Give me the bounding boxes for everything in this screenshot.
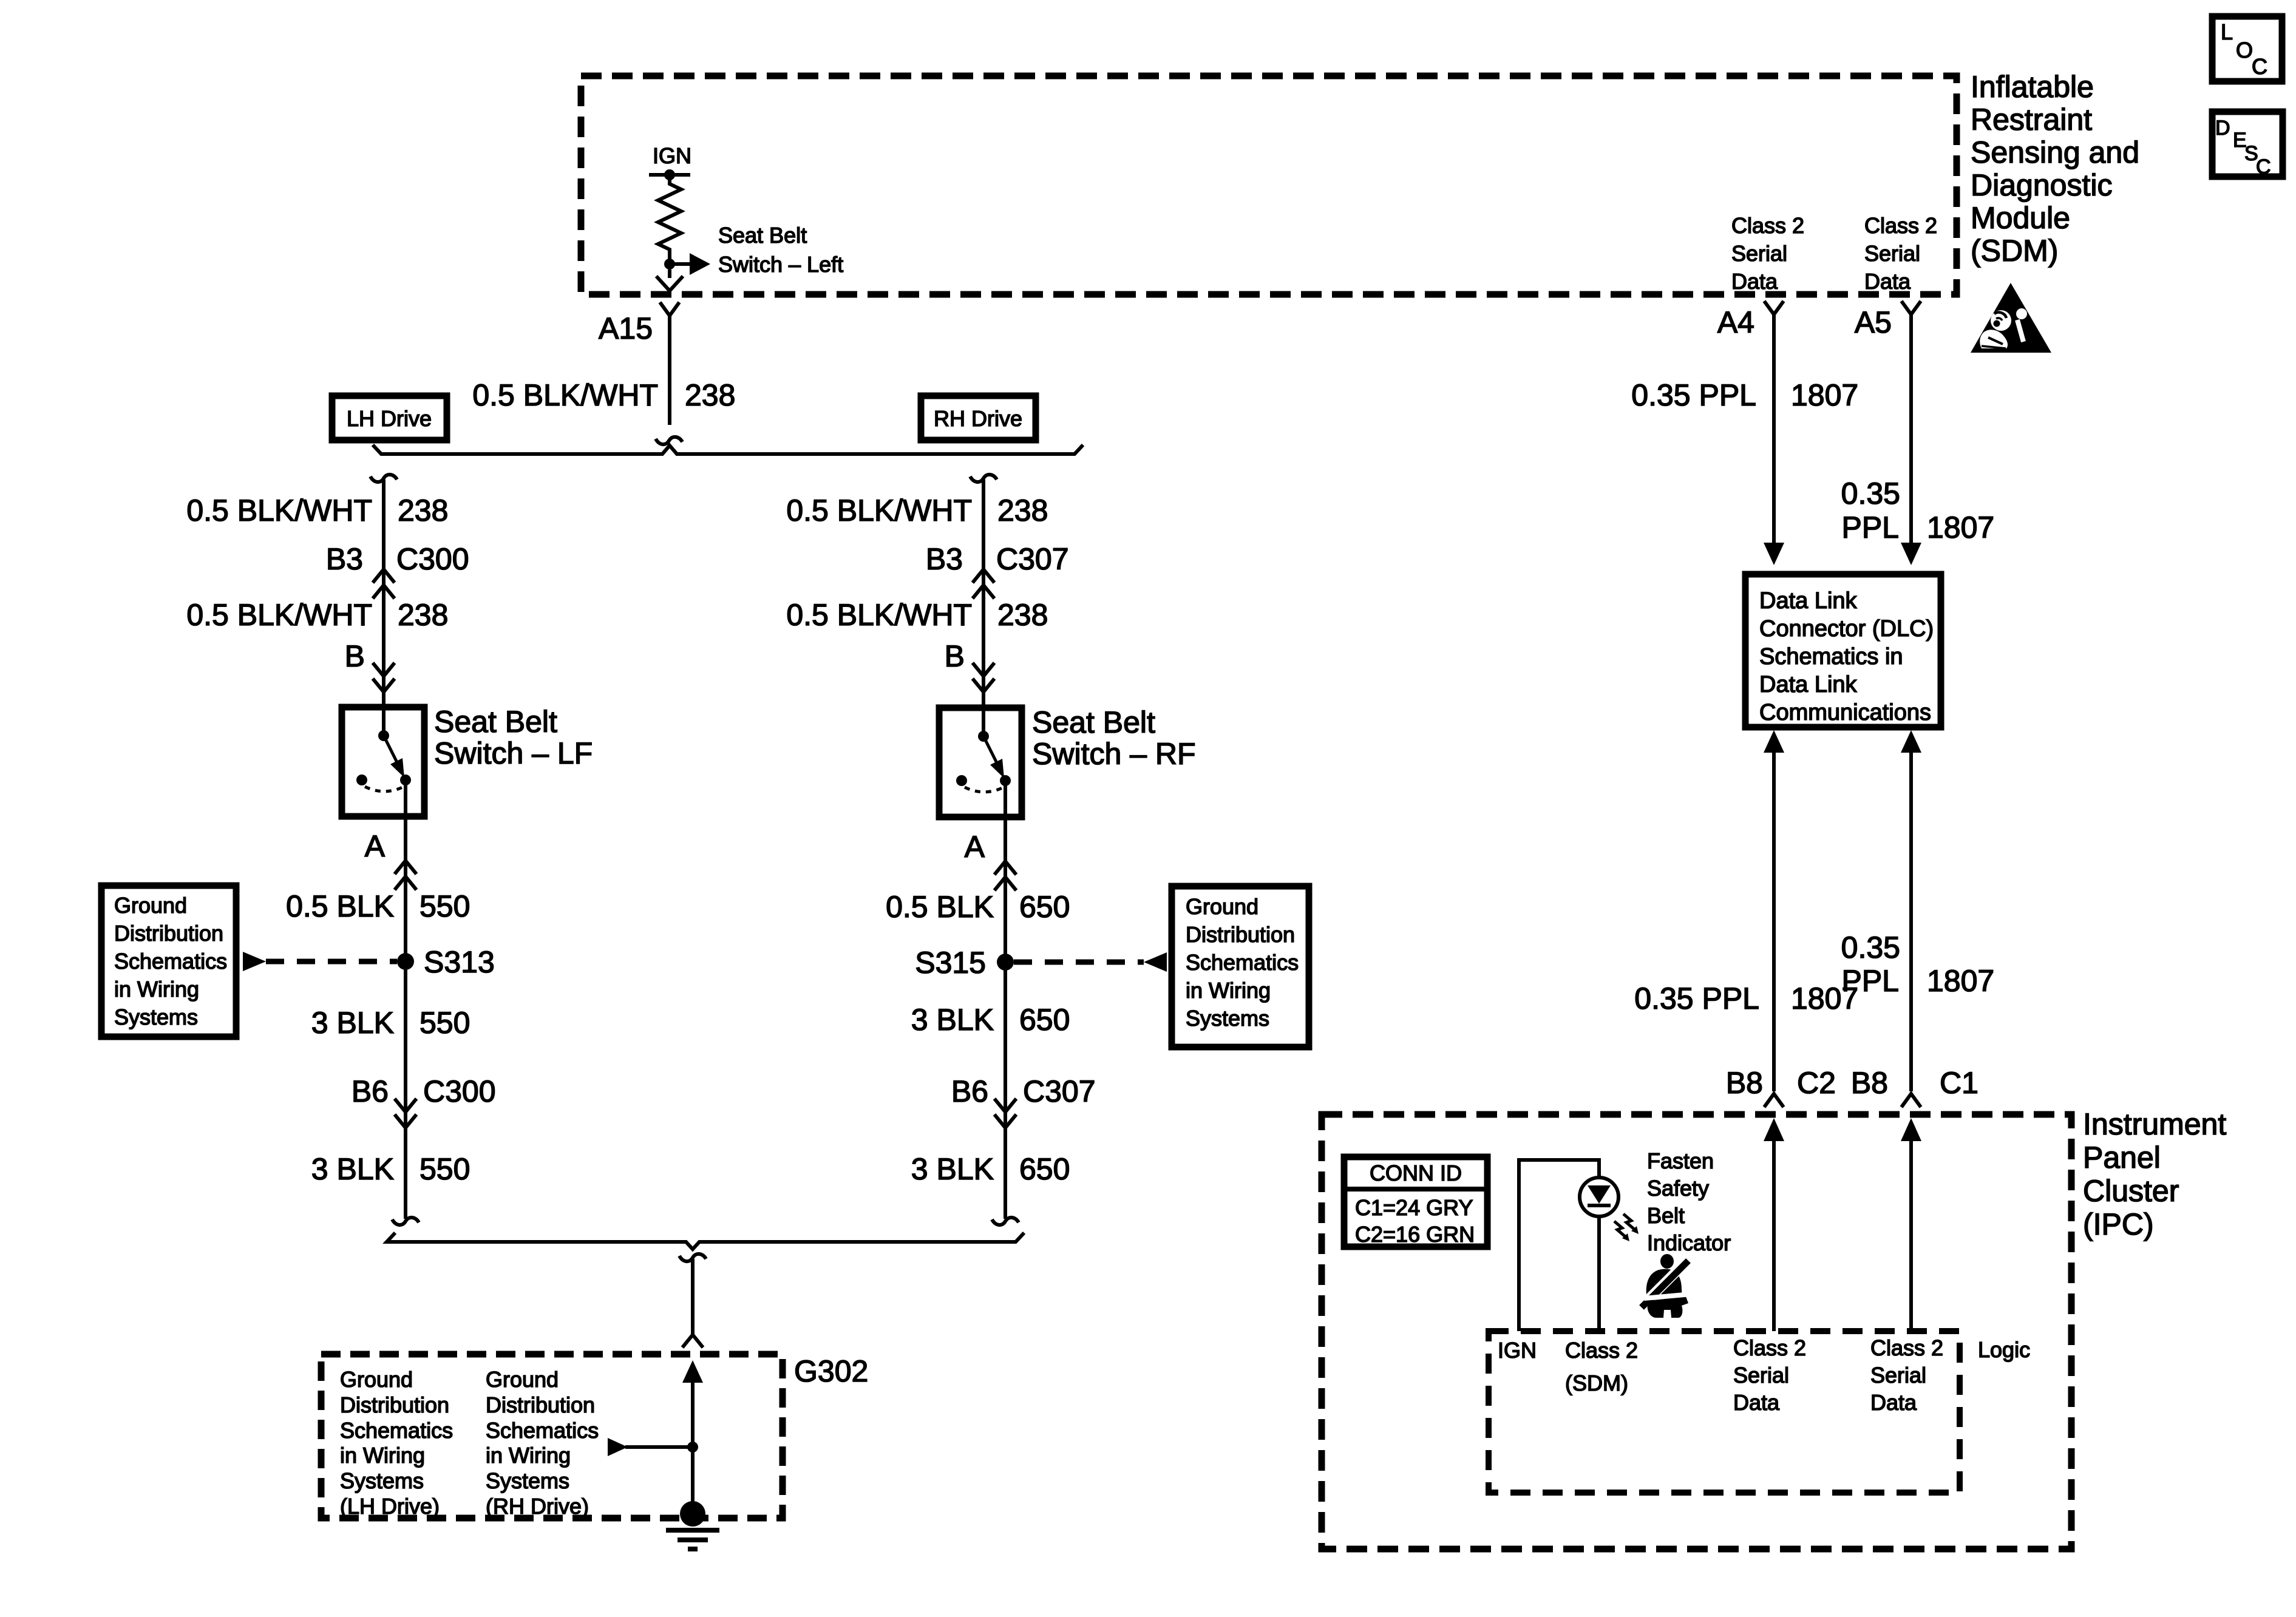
box Seat Belt Switch - RF xyxy=(939,708,1022,817)
label Inflatable Restraint Sensing and Diagnostic Module (SDM) xyxy=(1971,70,2139,268)
label 0.35 PPL 1807 (C1 wire) xyxy=(1841,931,1995,998)
label B6 C307 xyxy=(951,1074,1096,1108)
wire break curl (LH branch bottom) xyxy=(392,1218,419,1225)
wire arrow down to SDM pin A15 xyxy=(656,269,683,291)
switch LF internals xyxy=(356,707,411,816)
label 0.35 PPL 1807 (A4 wire) xyxy=(1631,378,1858,412)
svg-text:O: O xyxy=(2236,38,2253,63)
box logic dashed xyxy=(1489,1331,1960,1493)
svg-text:Class 2: Class 2 xyxy=(1565,1338,1638,1363)
svg-text:0.5 BLK/WHT: 0.5 BLK/WHT xyxy=(186,598,372,632)
label A15 xyxy=(599,311,653,345)
svg-text:(IPC): (IPC) xyxy=(2083,1207,2154,1241)
splice S315 dot xyxy=(997,954,1014,971)
wire A4 to DLC with down arrow xyxy=(1764,314,1784,565)
svg-text:(LH Drive): (LH Drive) xyxy=(340,1494,440,1519)
box RH Drive xyxy=(921,396,1036,440)
label G302 xyxy=(794,1354,868,1388)
box DESC xyxy=(2212,112,2283,178)
svg-text:3 BLK: 3 BLK xyxy=(911,1003,994,1037)
svg-text:Connector (DLC): Connector (DLC) xyxy=(1759,616,1934,642)
svg-text:Data: Data xyxy=(1733,1390,1780,1415)
svg-text:Class 2: Class 2 xyxy=(1731,213,1804,238)
label B8 C1 xyxy=(1851,1066,1978,1100)
wire LH branch upper xyxy=(382,480,385,707)
svg-text:C: C xyxy=(2252,54,2267,79)
connector chevrons below LF switch xyxy=(395,861,416,890)
label Class 2 (SDM) (logic pin) xyxy=(1565,1338,1638,1395)
label pin A (LF switch) xyxy=(365,829,385,863)
svg-text:3 BLK: 3 BLK xyxy=(911,1152,994,1186)
svg-text:C300: C300 xyxy=(396,542,469,576)
svg-text:Data: Data xyxy=(1731,269,1778,294)
svg-text:C307: C307 xyxy=(996,542,1069,576)
svg-text:B3: B3 xyxy=(926,542,963,576)
connector C307 pin B3 chevrons xyxy=(973,569,994,598)
connector chevrons into RF switch xyxy=(973,663,994,692)
label Class 2 Serial Data (logic pin B8-C2) xyxy=(1733,1335,1806,1415)
svg-text:1807: 1807 xyxy=(1791,378,1858,412)
connector SDM pin A4 xyxy=(1764,301,1784,314)
svg-text:Logic: Logic xyxy=(1978,1337,2030,1362)
label Logic xyxy=(1978,1337,2030,1362)
svg-text:RH Drive: RH Drive xyxy=(934,406,1022,431)
svg-text:Schematics: Schematics xyxy=(114,949,227,974)
svg-text:C: C xyxy=(2256,155,2271,178)
wire RH branch upper xyxy=(982,480,985,708)
svg-text:Schematics in: Schematics in xyxy=(1759,644,1903,670)
label 0.5 BLK 650 xyxy=(886,890,1070,924)
svg-text:in Wiring: in Wiring xyxy=(1186,978,1271,1003)
label 0.5 BLK/WHT 238 (RH lower) xyxy=(786,598,1048,632)
icon SRS warning triangle xyxy=(1971,283,2051,353)
svg-text:Seat Belt: Seat Belt xyxy=(1032,705,1155,739)
svg-text:Class 2: Class 2 xyxy=(1870,1335,1943,1360)
svg-text:Distribution: Distribution xyxy=(486,1392,595,1417)
svg-text:S313: S313 xyxy=(424,945,495,979)
svg-text:650: 650 xyxy=(1019,1152,1070,1186)
label 0.5 BLK/WHT 238 (RH upper) xyxy=(786,493,1048,527)
wire ground stub down to G302 xyxy=(691,1259,695,1336)
box Ground Distribution Schematics (left) xyxy=(101,886,236,1037)
svg-text:Ground: Ground xyxy=(114,893,187,918)
svg-text:Indicator: Indicator xyxy=(1647,1230,1731,1255)
wire options split bus (top) xyxy=(373,445,1083,454)
label 3 BLK 550 (above C300) xyxy=(311,1006,470,1040)
node IGN label xyxy=(653,143,691,168)
svg-text:Module: Module xyxy=(1971,201,2070,235)
svg-text:Diagnostic: Diagnostic xyxy=(1971,168,2112,202)
svg-text:C300: C300 xyxy=(423,1074,496,1108)
svg-text:D: D xyxy=(2215,117,2230,140)
svg-text:550: 550 xyxy=(419,889,470,923)
splice reference dashed line (S313) xyxy=(243,952,397,971)
box LOC xyxy=(2212,16,2282,81)
label Instrument Panel Cluster (IPC) xyxy=(2083,1107,2226,1241)
svg-text:Distribution: Distribution xyxy=(1186,922,1295,947)
connector chevron into G302 xyxy=(682,1335,703,1347)
svg-text:in Wiring: in Wiring xyxy=(486,1443,571,1468)
svg-text:Data Link: Data Link xyxy=(1759,588,1858,614)
svg-text:238: 238 xyxy=(997,598,1048,632)
wire LF switch down to bottom bus xyxy=(404,816,407,1219)
wire IGN stub xyxy=(649,173,690,177)
splice S313 dot xyxy=(397,953,414,970)
svg-text:C2=16 GRN: C2=16 GRN xyxy=(1355,1222,1475,1247)
wire break curl (ground stub) xyxy=(679,1254,706,1261)
wire inside G302 with up arrow xyxy=(682,1360,703,1505)
svg-text:Data: Data xyxy=(1870,1390,1917,1415)
svg-text:0.5 BLK: 0.5 BLK xyxy=(286,889,394,923)
svg-text:Ground: Ground xyxy=(1186,894,1258,919)
label 0.5 BLK/WHT 238 (LH upper) xyxy=(186,493,448,527)
connector C300 pin B3 chevrons xyxy=(373,569,395,598)
svg-text:Serial: Serial xyxy=(1733,1363,1789,1388)
label Fasten Safety Belt Indicator xyxy=(1647,1148,1731,1255)
wire IPC B8(C1) to logic with up arrow xyxy=(1901,1118,1921,1331)
wire break curl (RH branch bottom) xyxy=(992,1218,1019,1225)
svg-text:3 BLK: 3 BLK xyxy=(311,1006,394,1040)
junction resistor bottom dot xyxy=(664,259,675,269)
svg-text:Distribution: Distribution xyxy=(114,921,223,946)
svg-text:1807: 1807 xyxy=(1791,981,1858,1015)
svg-text:B3: B3 xyxy=(326,542,363,576)
svg-text:1807: 1807 xyxy=(1927,964,1994,998)
svg-text:Inflatable: Inflatable xyxy=(1971,70,2094,104)
label pin B (LF switch) xyxy=(345,639,365,673)
wire ground merge bus (bottom) xyxy=(387,1233,1024,1249)
label B8 C2 xyxy=(1726,1066,1836,1100)
svg-text:Class 2: Class 2 xyxy=(1733,1335,1806,1360)
box LH Drive xyxy=(332,396,447,440)
switch RF internals xyxy=(956,708,1011,817)
label 0.5 BLK/WHT 238 (A15 wire) xyxy=(472,378,735,412)
wire A15 down to split xyxy=(668,316,671,425)
box Data Link Connector DLC xyxy=(1745,574,1941,727)
svg-text:Belt: Belt xyxy=(1647,1203,1685,1228)
svg-text:in Wiring: in Wiring xyxy=(114,977,199,1002)
svg-text:Panel: Panel xyxy=(2083,1141,2161,1175)
svg-text:(RH Drive): (RH Drive) xyxy=(486,1494,589,1519)
arrow to Seat Belt Switch - Left label xyxy=(670,253,710,275)
label B3 C300 xyxy=(326,542,469,576)
svg-text:650: 650 xyxy=(1019,1003,1070,1037)
connector C300 pin B6 chevrons xyxy=(395,1099,416,1128)
svg-text:(SDM): (SDM) xyxy=(1971,234,2058,268)
svg-text:Fasten: Fasten xyxy=(1647,1148,1714,1173)
svg-text:0.5 BLK: 0.5 BLK xyxy=(886,890,994,924)
svg-text:Systems: Systems xyxy=(1186,1006,1269,1031)
connector SDM pin A15 xyxy=(660,302,679,316)
svg-text:Seat Belt: Seat Belt xyxy=(718,223,807,248)
svg-text:IGN: IGN xyxy=(653,143,691,168)
label Class 2 Serial Data (SDM pin A5) xyxy=(1864,213,1937,294)
svg-text:G302: G302 xyxy=(794,1354,868,1388)
svg-text:Safety: Safety xyxy=(1647,1176,1709,1201)
svg-text:LH Drive: LH Drive xyxy=(347,406,432,431)
connector SDM pin A5 xyxy=(1901,301,1921,314)
svg-text:0.35: 0.35 xyxy=(1841,931,1900,964)
svg-text:L: L xyxy=(2221,19,2233,44)
svg-text:1807: 1807 xyxy=(1927,510,1994,544)
svg-text:0.5 BLK/WHT: 0.5 BLK/WHT xyxy=(786,493,972,527)
svg-text:S315: S315 xyxy=(915,946,986,980)
svg-text:Ground: Ground xyxy=(486,1367,559,1392)
label A4 xyxy=(1717,305,1754,339)
svg-text:Switch – LF: Switch – LF xyxy=(434,736,593,770)
label A5 xyxy=(1855,305,1892,339)
svg-text:B6: B6 xyxy=(951,1074,988,1108)
svg-text:Serial: Serial xyxy=(1864,241,1920,266)
svg-text:650: 650 xyxy=(1019,890,1070,924)
svg-text:238: 238 xyxy=(398,493,448,527)
label Class 2 Serial Data (logic pin B8-C1) xyxy=(1870,1335,1943,1415)
connector IPC pin B8 (C1) xyxy=(1901,1094,1921,1107)
connector chevrons into LF switch xyxy=(373,663,395,692)
label 0.5 BLK/WHT 238 (LH lower) xyxy=(186,598,448,632)
LED Fasten Safety Belt Indicator xyxy=(1580,1178,1618,1331)
svg-text:B: B xyxy=(945,639,965,673)
svg-text:Class 2: Class 2 xyxy=(1864,213,1937,238)
svg-text:B: B xyxy=(345,639,365,673)
wire DLC to IPC (C1-B8) with up arrow xyxy=(1901,730,1921,1091)
svg-text:Sensing and: Sensing and xyxy=(1971,135,2139,169)
svg-text:0.35: 0.35 xyxy=(1841,476,1900,510)
label 3 BLK 550 (below C300) xyxy=(311,1152,470,1186)
svg-text:B6: B6 xyxy=(352,1074,389,1108)
svg-text:Seat Belt: Seat Belt xyxy=(434,705,557,739)
ground G302 symbol xyxy=(666,1501,719,1549)
label 3 BLK 650 (below C307) xyxy=(911,1152,1070,1186)
label S315 xyxy=(915,946,986,980)
wire IGN jog inside IPC xyxy=(1519,1160,1599,1331)
svg-text:Data: Data xyxy=(1864,269,1911,294)
label IGN (logic pin) xyxy=(1498,1338,1537,1363)
svg-text:0.35 PPL: 0.35 PPL xyxy=(1631,378,1756,412)
arrow reference into ground wire xyxy=(608,1438,698,1456)
box G302 dashed xyxy=(321,1354,783,1518)
svg-text:CONN ID: CONN ID xyxy=(1370,1161,1462,1185)
label pin B (RF switch) xyxy=(945,639,965,673)
wire IPC B8(C2) to logic with up arrow xyxy=(1764,1118,1784,1331)
svg-text:A4: A4 xyxy=(1717,305,1754,339)
svg-text:(SDM): (SDM) xyxy=(1565,1371,1628,1395)
svg-text:Serial: Serial xyxy=(1870,1363,1926,1388)
label 3 BLK 650 (above C307) xyxy=(911,1003,1070,1037)
label Class 2 Serial Data (SDM pin A4) xyxy=(1731,213,1804,294)
junction IGN node dot xyxy=(664,169,675,180)
svg-text:A5: A5 xyxy=(1855,305,1892,339)
svg-text:550: 550 xyxy=(419,1152,470,1186)
svg-text:238: 238 xyxy=(685,378,735,412)
svg-text:B8: B8 xyxy=(1851,1066,1888,1100)
svg-text:Cluster: Cluster xyxy=(2083,1174,2179,1208)
box Instrument Panel Cluster IPC dashed xyxy=(1322,1114,2071,1549)
label Seat Belt Switch - RF xyxy=(1032,705,1196,771)
svg-text:550: 550 xyxy=(419,1006,470,1040)
svg-text:Systems: Systems xyxy=(340,1468,424,1493)
svg-text:Data Link: Data Link xyxy=(1759,672,1858,697)
svg-text:0.35 PPL: 0.35 PPL xyxy=(1634,981,1759,1015)
label pin A (RF switch) xyxy=(965,830,985,864)
svg-text:B8: B8 xyxy=(1726,1066,1763,1100)
svg-text:0.5 BLK/WHT: 0.5 BLK/WHT xyxy=(786,598,972,632)
svg-text:C307: C307 xyxy=(1023,1074,1096,1108)
svg-text:Schematics: Schematics xyxy=(1186,950,1299,975)
arrows LED light emission xyxy=(1614,1214,1639,1241)
svg-text:238: 238 xyxy=(997,493,1048,527)
svg-text:A: A xyxy=(965,830,985,864)
svg-text:PPL: PPL xyxy=(1841,510,1899,544)
svg-text:Switch – RF: Switch – RF xyxy=(1032,737,1196,771)
splice reference dashed line (S315) xyxy=(1014,952,1167,972)
svg-text:Ground: Ground xyxy=(340,1367,413,1392)
svg-text:Instrument: Instrument xyxy=(2083,1107,2226,1141)
svg-text:Systems: Systems xyxy=(114,1005,198,1029)
label Ground Distribution Schematics in Wiring Systems (RH Drive) xyxy=(486,1367,599,1519)
svg-text:238: 238 xyxy=(398,598,448,632)
label B3 C307 xyxy=(926,542,1069,576)
svg-text:Communications: Communications xyxy=(1759,700,1931,725)
resistor Seat Belt Switch - Left (SDM internal) xyxy=(658,175,681,264)
svg-text:A15: A15 xyxy=(599,311,653,345)
label Seat Belt Switch - LF xyxy=(434,705,593,770)
wire A5 to DLC with down arrow xyxy=(1901,314,1921,565)
svg-text:IGN: IGN xyxy=(1498,1338,1537,1363)
label 0.5 BLK 550 xyxy=(286,889,470,923)
svg-text:C1=24 GRY: C1=24 GRY xyxy=(1355,1195,1473,1220)
box Seat Belt Switch - LF xyxy=(342,707,424,816)
box CONN ID xyxy=(1344,1157,1487,1247)
connector chevrons below RF switch xyxy=(994,861,1016,890)
wire break curl (A15 wire) xyxy=(656,437,682,444)
icon seat belt person xyxy=(1642,1254,1691,1318)
label Seat Belt Switch - Left xyxy=(718,223,843,277)
connector C307 pin B6 chevrons xyxy=(994,1099,1016,1128)
label B6 C300 xyxy=(352,1074,496,1108)
label 0.35 PPL 1807 (C2 wire) xyxy=(1634,981,1858,1015)
svg-text:Schematics: Schematics xyxy=(486,1418,599,1443)
svg-text:A: A xyxy=(365,829,385,863)
svg-text:Serial: Serial xyxy=(1731,241,1787,266)
wire RH branch: break curl top xyxy=(970,475,997,482)
svg-text:Switch – Left: Switch – Left xyxy=(718,252,843,277)
label S313 xyxy=(424,945,495,979)
wire break curl (LH branch top) xyxy=(370,475,397,482)
svg-text:C2: C2 xyxy=(1797,1066,1836,1100)
svg-text:0.5 BLK/WHT: 0.5 BLK/WHT xyxy=(472,378,658,412)
svg-text:in Wiring: in Wiring xyxy=(340,1443,425,1468)
SDM module dashed box xyxy=(581,76,1957,294)
label 0.35 PPL 1807 (A5 wire) xyxy=(1841,476,1995,544)
connector IPC pin B8 (C2) xyxy=(1764,1094,1784,1107)
svg-text:3 BLK: 3 BLK xyxy=(311,1152,394,1186)
svg-text:Schematics: Schematics xyxy=(340,1418,453,1443)
svg-text:0.5 BLK/WHT: 0.5 BLK/WHT xyxy=(186,493,372,527)
svg-text:C1: C1 xyxy=(1940,1066,1978,1100)
svg-text:Systems: Systems xyxy=(486,1468,569,1493)
svg-text:Distribution: Distribution xyxy=(340,1392,449,1417)
svg-text:Restraint: Restraint xyxy=(1971,103,2092,137)
label Ground Distribution Schematics in Wiring Systems (LH Drive) xyxy=(340,1367,453,1519)
wire RF switch down to bottom bus xyxy=(1004,817,1007,1219)
wire DLC to IPC (C2-B8) with up arrow xyxy=(1764,730,1784,1091)
box Ground Distribution Schematics (right) xyxy=(1172,886,1309,1047)
